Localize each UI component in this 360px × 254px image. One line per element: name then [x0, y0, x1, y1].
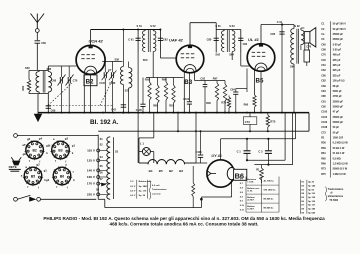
svg-text:R36: R36: [206, 102, 211, 105]
svg-text:3-30 pF: 3-30 pF: [333, 43, 342, 46]
svg-text:UCH 42: UCH 42: [89, 39, 104, 44]
coil: [142, 31, 145, 52]
svg-text:C42: C42: [111, 107, 116, 111]
svg-text:g1: g1: [44, 168, 48, 172]
svg-text:51 kΩ 1 W: 51 kΩ 1 W: [333, 152, 345, 155]
svg-text:C106: C106: [136, 109, 143, 112]
svg-text:5000 pF: 5000 pF: [333, 90, 343, 93]
svg-text:C84: C84: [230, 89, 235, 92]
svg-text:C95: C95: [321, 105, 326, 108]
B6 filament arrow: [207, 170, 211, 177]
svg-text:B5: B5: [31, 174, 35, 178]
svg-text:68 pF: 68 pF: [333, 85, 340, 88]
svg-text:4700 pF: 4700 pF: [333, 95, 343, 98]
svg-text:C108: C108: [321, 126, 327, 129]
svg-text:C 1: C 1: [237, 150, 242, 154]
svg-text:f: f: [55, 159, 56, 163]
svg-text:47 pF: 47 pF: [333, 111, 340, 114]
op wire top cap B2: [90, 30, 92, 46]
wire secondary top to B2 grid: [47, 66, 49, 72]
wire transformer bottom: [104, 199, 106, 207]
wire top cap B5: [260, 25, 262, 44]
svg-text:Sp 640: Sp 640: [308, 211, 316, 214]
svg-text:B3: B3: [179, 169, 183, 173]
svg-text:C70: C70: [321, 54, 326, 57]
svg-text:R53: R53: [169, 104, 174, 108]
svg-text:gH: gH: [23, 152, 27, 156]
coil: [232, 31, 235, 52]
svg-text:325 pF: 325 pF: [333, 59, 341, 62]
svg-text:S62: S62: [215, 52, 220, 56]
antenna: [31, 14, 38, 23]
wire B2 to oscillator: [102, 61, 122, 63]
capacitor C85: [281, 25, 283, 113]
svg-text:BI. 192 A.: BI. 192 A.: [90, 119, 119, 126]
B6 heater wire: [196, 162, 207, 164]
svg-text:B2: B2: [86, 79, 94, 86]
svg-text:f: f: [38, 185, 39, 189]
svg-text:C62: C62: [163, 38, 168, 42]
svg-text:R66: R66: [321, 162, 326, 165]
svg-text:B5: B5: [256, 77, 264, 84]
svg-text:C69: C69: [51, 108, 56, 112]
svg-text:S-8: S-8: [240, 192, 243, 194]
svg-text:Trasformatore: Trasformatore: [328, 188, 344, 191]
svg-text:S-9: S-9: [240, 201, 243, 203]
core: [226, 30, 228, 52]
wire top cap B3: [189, 23, 191, 46]
svg-text:Bobina osc.: Bobina osc.: [247, 188, 260, 190]
socket B3: [52, 141, 70, 159]
svg-text:325 pF: 325 pF: [333, 64, 341, 67]
secondary: [301, 30, 304, 45]
coil: [221, 31, 224, 52]
ground bus: [38, 112, 309, 114]
coil: [153, 31, 156, 52]
socket B2: [26, 141, 44, 159]
svg-text:170 V: 170 V: [87, 182, 96, 186]
socket B6: [53, 167, 71, 185]
svg-text:f: f: [73, 170, 74, 174]
svg-text:1a M.F.: 1a M.F.: [247, 209, 255, 211]
wire elbow: [284, 113, 286, 161]
svg-text:B3: B3: [184, 79, 192, 86]
capacitor C82: [238, 37, 243, 39]
svg-text:C82: C82: [321, 80, 326, 83]
svg-text:S-9: S-9: [240, 196, 243, 198]
svg-text:C85: C85: [270, 32, 275, 36]
svg-text:S64: S64: [229, 52, 234, 56]
core: [147, 30, 149, 52]
svg-text:50 pF: 50 pF: [333, 126, 340, 129]
field coil: [304, 43, 306, 50]
wires below IFT2: [231, 52, 233, 60]
svg-text:S37: S37: [125, 89, 130, 93]
variable capacitor C70: [67, 77, 69, 83]
svg-text:S 63: S 63: [229, 24, 235, 28]
wire primary bottom: [293, 64, 295, 113]
svg-text:50 µF 500 V: 50 µF 500 V: [333, 23, 347, 26]
svg-text:C73: C73: [245, 120, 250, 124]
svg-text:Bobina: Bobina: [247, 206, 255, 208]
wire drops: [153, 113, 155, 138]
speaker wires: [300, 28, 302, 30]
svg-text:1000 Ω R: 1000 Ω R: [333, 137, 344, 140]
svg-text:490 pF: 490 pF: [333, 54, 341, 57]
svg-text:C78: C78: [306, 46, 311, 49]
mains switch: [14, 197, 18, 201]
capacitor C84: [246, 69, 248, 93]
heater winding: [138, 152, 140, 164]
capacitor C108: [200, 131, 202, 154]
svg-text:R36: R36: [321, 142, 326, 145]
svg-text:R61: R61: [21, 85, 25, 90]
svg-text:C91: C91: [321, 100, 326, 103]
capacitor C73: [249, 113, 251, 132]
resistor R90: [253, 95, 256, 107]
svg-text:Sp. 3800: Sp. 3800: [139, 186, 149, 188]
svg-text:S-7: S-7: [240, 183, 243, 185]
core: [296, 29, 298, 64]
svg-text:L 1: L 1: [140, 141, 144, 145]
svg-text:110 V: 110 V: [87, 149, 96, 153]
svg-text:25000 pF: 25000 pF: [333, 100, 344, 103]
svg-text:6,3 V: 6,3 V: [130, 195, 136, 197]
svg-text:2a M.F.: 2a M.F.: [247, 200, 255, 202]
svg-text:Sp 140: Sp 140: [308, 184, 316, 187]
svg-text:C100: C100: [321, 111, 327, 114]
resistor R75: [267, 113, 269, 115]
svg-text:C85: C85: [321, 95, 326, 98]
svg-text:Bobina: Bobina: [247, 197, 255, 199]
svg-text:0,1 MΩ 0,5 W: 0,1 MΩ 0,5 W: [333, 142, 349, 145]
svg-text:B2: B2: [169, 169, 173, 173]
wire: [37, 94, 39, 113]
svg-text:S58: S58: [47, 67, 52, 71]
svg-text:50 µF 500 V: 50 µF 500 V: [333, 28, 347, 31]
oscillator coil S38: [120, 67, 123, 85]
oscillator coil S38 feed: [122, 30, 124, 67]
svg-text:1,2 MΩ 0,5 W: 1,2 MΩ 0,5 W: [333, 162, 349, 165]
svg-text:160 V: 160 V: [87, 175, 96, 179]
ground: [34, 114, 41, 121]
svg-text:f: f: [27, 185, 28, 189]
resistor R53: [173, 78, 175, 86]
svg-text:50000 Ω 5 W: 50000 Ω 5 W: [333, 168, 348, 171]
svg-text:C70: C70: [73, 79, 78, 83]
svg-text:OM 1400 kc: OM 1400 kc: [264, 189, 277, 192]
resistor R73: [228, 96, 230, 98]
svg-text:1 MΩ 0,5 W: 1 MΩ 0,5 W: [333, 173, 347, 176]
svg-text:C73: C73: [321, 131, 326, 134]
selector arrow: [102, 183, 106, 186]
svg-text:25000 pF: 25000 pF: [333, 116, 344, 119]
svg-text:S90: S90: [290, 65, 295, 69]
svg-text:Antenna: Antenna: [247, 178, 257, 181]
svg-text:C82: C82: [243, 43, 248, 46]
socket B5: [24, 167, 42, 185]
taps: [100, 150, 108, 152]
svg-text:C69: C69: [321, 85, 326, 88]
svg-text:C68: C68: [321, 49, 326, 52]
resistor R80: [192, 166, 194, 183]
lamp branch: [139, 137, 154, 139]
B2 pin wires: [83, 74, 85, 112]
svg-text:g2: g2: [27, 137, 31, 141]
capacitor C69: [47, 94, 49, 113]
capacitor C62: [158, 37, 163, 39]
svg-text:R1: R1: [256, 167, 260, 171]
wire elbow: [292, 113, 294, 165]
resistor R61: [28, 70, 30, 79]
svg-text:25000 pF: 25000 pF: [333, 33, 344, 36]
core: [42, 71, 44, 93]
svg-text:C104: C104: [183, 98, 190, 101]
svg-text:Sp 137: Sp 137: [308, 205, 316, 207]
trimmer C10: [110, 72, 112, 78]
svg-text:125 V: 125 V: [87, 159, 96, 163]
svg-text:C84: C84: [321, 90, 326, 93]
svg-text:R59: R59: [321, 147, 326, 150]
resistor R36: [224, 81, 226, 85]
svg-text:S-10: S-10: [240, 210, 244, 212]
svg-text:468 kc/s. Corrente totale anod: 468 kc/s. Corrente totale anodica 66 mA …: [110, 221, 259, 226]
svg-text:50000 pF: 50000 pF: [333, 121, 344, 124]
svg-text:S59: S59: [25, 66, 30, 70]
svg-text:R65: R65: [321, 157, 326, 160]
svg-text:25000 pF: 25000 pF: [333, 38, 344, 41]
svg-text:R75: R75: [321, 173, 326, 176]
svg-text:S38: S38: [115, 58, 120, 61]
svg-text:C60: C60: [41, 41, 46, 45]
svg-text:R73: R73: [321, 168, 326, 171]
B6 label box: [234, 169, 247, 180]
B5 pins: [254, 70, 256, 95]
svg-text:C80: C80: [207, 38, 212, 42]
svg-text:g2: g2: [36, 163, 40, 167]
wire: [29, 69, 48, 71]
svg-text:C68: C68: [51, 79, 56, 83]
svg-text:C108: C108: [196, 151, 203, 154]
svg-text:5 V: 5 V: [130, 181, 134, 183]
B6 cathode down: [231, 180, 233, 197]
svg-text:C60: C60: [321, 43, 326, 46]
svg-text:UL 41: UL 41: [248, 37, 260, 42]
svg-text:kg3: kg3: [44, 178, 49, 182]
svg-text:aT: aT: [22, 143, 26, 147]
svg-text:g2: g2: [65, 136, 69, 140]
B3 pins: [183, 72, 185, 113]
svg-text:3-30 pF: 3-30 pF: [333, 49, 342, 52]
svg-text:S 51: S 51: [137, 24, 143, 28]
svg-text:Sp 95: Sp 95: [308, 189, 315, 191]
svg-text:RETE: RETE: [9, 165, 17, 169]
svg-text:Trasformatore: Trasformatore: [152, 188, 167, 191]
svg-text:C100: C100: [99, 83, 105, 85]
svg-text:S 92: S 92: [294, 24, 300, 28]
wire anode B5 to output transformer: [261, 24, 294, 26]
svg-text:0,5 MΩ: 0,5 MΩ: [333, 157, 341, 160]
svg-text:e O.M.: e O.M.: [247, 182, 254, 184]
svg-text:UY 41: UY 41: [211, 154, 221, 158]
svg-text:C92: C92: [200, 77, 205, 80]
svg-text:C106: C106: [321, 121, 327, 124]
wire antenna down: [36, 43, 38, 70]
svg-text:B2: B2: [32, 148, 36, 152]
wire top: [91, 29, 161, 31]
svg-text:TS 5062: TS 5062: [329, 200, 338, 202]
svg-text:f: f: [67, 185, 68, 189]
svg-text:S53: S53: [143, 58, 148, 62]
wire HT line: [98, 130, 309, 132]
voltages table: [130, 180, 174, 200]
transformer S1-S8 primary: [97, 135, 99, 200]
svg-text:Sp 30: Sp 30: [308, 182, 315, 184]
svg-text:6,3 V: 6,3 V: [130, 190, 136, 192]
svg-text:S-8: S-8: [240, 188, 243, 190]
wires below IFT1: [137, 53, 139, 164]
svg-text:f: f: [29, 159, 30, 163]
svg-text:140 V: 140 V: [87, 169, 96, 173]
svg-text:Sp. 26: Sp. 26: [139, 195, 146, 197]
svg-text:C 61: C 61: [128, 38, 134, 42]
svg-text:Mf 468 kc: Mf 468 kc: [264, 207, 275, 210]
svg-text:220 V: 220 V: [87, 193, 96, 197]
resistor R65: [157, 78, 159, 86]
transformer note: [325, 187, 326, 202]
svg-text:6,3 volt: 6,3 volt: [152, 184, 160, 187]
svg-text:UAF 42: UAF 42: [169, 38, 184, 43]
svg-text:Sp 110: Sp 110: [308, 193, 316, 195]
svg-text:R90: R90: [244, 103, 249, 106]
svg-text:B6: B6: [60, 174, 64, 178]
svg-text:Sp. 170: Sp. 170: [139, 190, 147, 192]
capacitor C106: [140, 103, 145, 105]
svg-text:Sp 340: Sp 340: [308, 208, 316, 211]
svg-text:Sp 120: Sp 120: [308, 197, 316, 199]
svg-text:C80: C80: [321, 74, 326, 77]
svg-text:C104: C104: [321, 116, 327, 119]
svg-text:325 pF: 325 pF: [333, 74, 341, 77]
svg-text:R65: R65: [153, 104, 158, 108]
svg-text:alimentazione: alimentazione: [328, 195, 344, 198]
svg-text:6,3 V: 6,3 V: [130, 186, 136, 188]
svg-text:50 kΩ 1 W: 50 kΩ 1 W: [333, 147, 345, 150]
wire elbow: [295, 113, 297, 139]
svg-text:B3: B3: [58, 148, 62, 152]
svg-text:g1: g1: [72, 143, 76, 147]
wire bottom: [29, 93, 48, 95]
capacitor C60: [35, 40, 41, 42]
svg-text:C42: C42: [321, 59, 326, 62]
svg-text:f: f: [56, 185, 57, 189]
svg-text:Mf 468 kc: Mf 468 kc: [264, 198, 275, 201]
svg-text:corrente: corrente: [152, 192, 162, 195]
svg-text:AL 745 kc: AL 745 kc: [264, 180, 275, 183]
svg-text:B5: B5: [159, 169, 163, 173]
wire: [195, 80, 226, 82]
svg-text:325 pF: 325 pF: [333, 69, 341, 72]
svg-text:g4: g4: [39, 136, 43, 140]
svg-text:C 2: C 2: [258, 150, 263, 154]
svg-text:R97: R97: [213, 77, 218, 80]
terminal: [14, 134, 18, 138]
svg-text:100 pF-0,5: 100 pF-0,5: [333, 80, 346, 83]
svg-text:50 µF: 50 µF: [333, 131, 340, 134]
svg-text:R75: R75: [270, 120, 275, 124]
svg-text:S 52: S 52: [150, 24, 156, 28]
capacitor C42: [121, 104, 126, 106]
svg-text:B4: B4: [149, 169, 153, 173]
svg-text:R73: R73: [221, 101, 226, 104]
svg-text:R61: R61: [321, 152, 326, 155]
oscillator coil S37: [129, 68, 132, 89]
svg-text:S-7: S-7: [240, 179, 243, 181]
svg-text:O. M.: O. M.: [247, 191, 253, 193]
svg-text:25000 pF: 25000 pF: [333, 105, 344, 108]
loudspeaker: [304, 32, 310, 43]
wire: [146, 77, 184, 79]
wire drop: [177, 113, 179, 132]
svg-text:S-10: S-10: [240, 205, 244, 207]
trimmer C100: [103, 72, 105, 78]
B6 cathode circle: [227, 168, 236, 180]
gang dashed line: [47, 105, 114, 107]
svg-text:Sp 130: Sp 130: [308, 201, 316, 203]
svg-text:di: di: [330, 193, 332, 195]
svg-text:C62: C62: [321, 69, 326, 72]
svg-text:C61: C61: [321, 64, 326, 67]
